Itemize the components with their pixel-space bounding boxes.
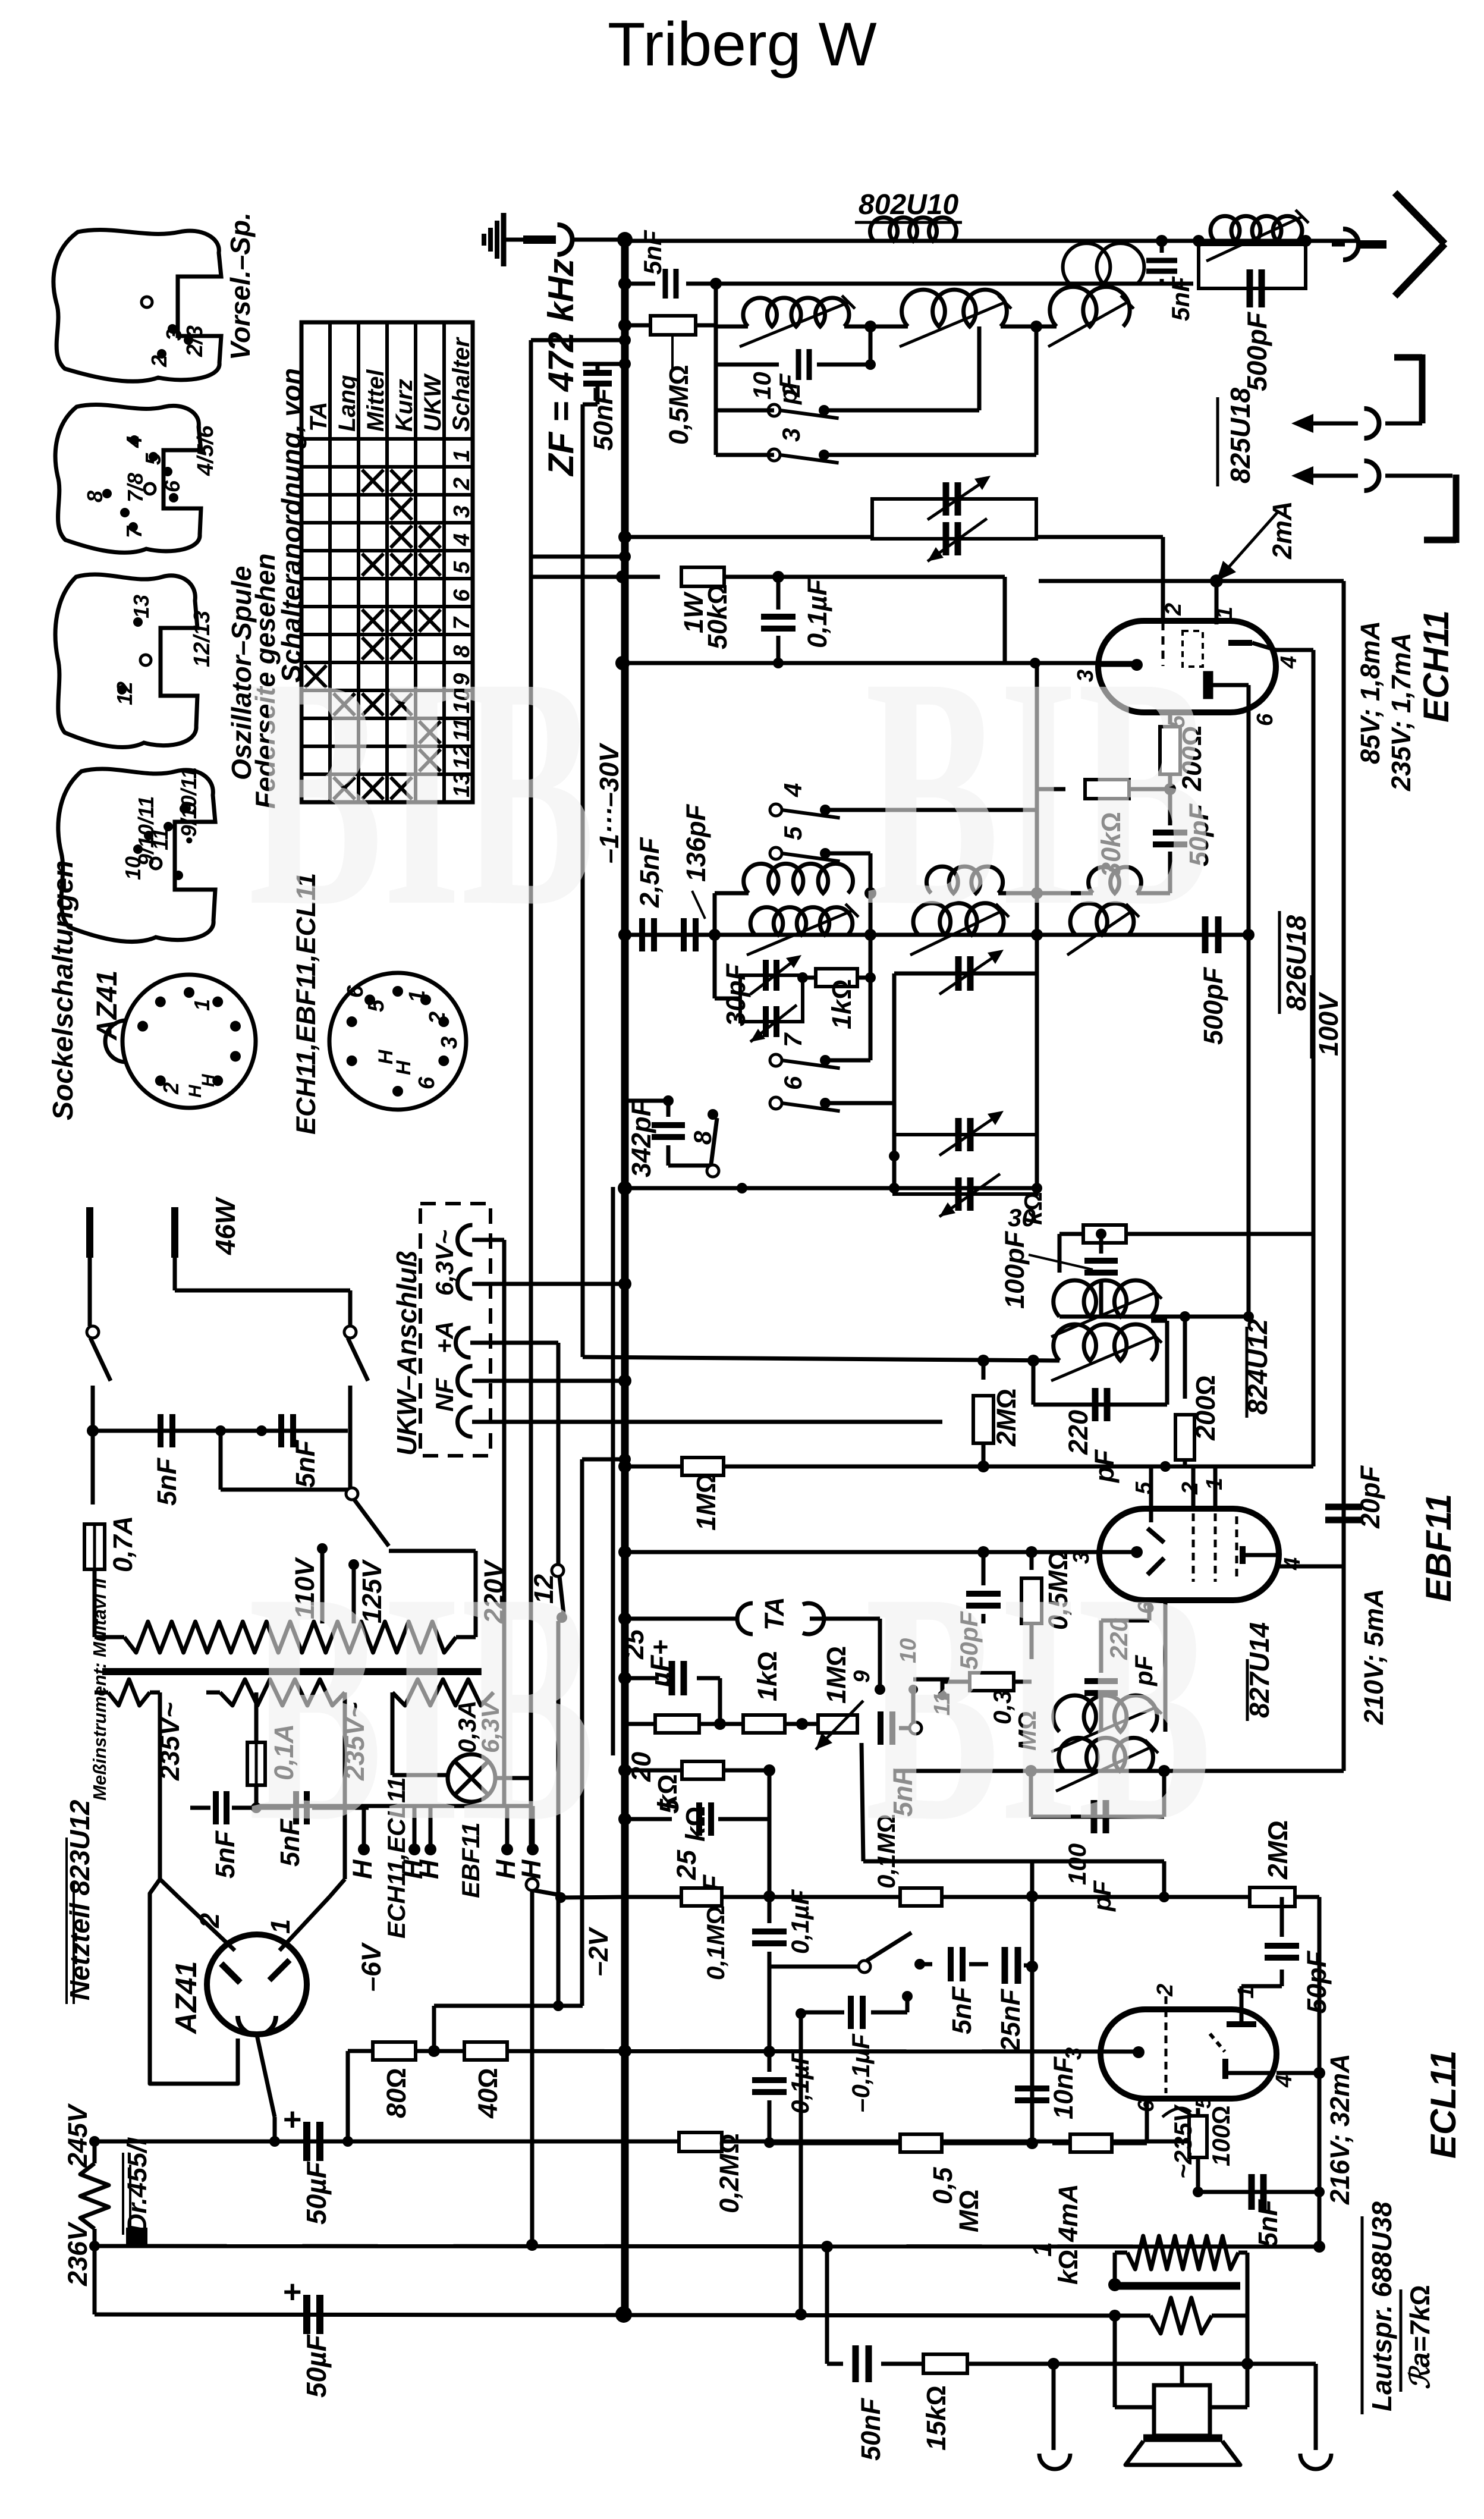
- resistor 1M avc: [625, 1466, 680, 1467]
- node: [1048, 2358, 1059, 2370]
- wire avc stub: [531, 555, 625, 559]
- svg-text:4: 4: [449, 533, 474, 546]
- node: [864, 321, 876, 332]
- ECL11 triode grid: [1210, 2034, 1225, 2052]
- resistor 40: [464, 2042, 507, 2060]
- switch table X marks: [362, 470, 383, 492]
- resistor 200 osc: [1168, 712, 1172, 724]
- svg-text:Kurz: Kurz: [391, 379, 417, 432]
- svg-text:8: 8: [83, 491, 107, 502]
- node: [1026, 1890, 1038, 1902]
- svg-text:Meßinstrument: Multavi II: Meßinstrument: Multavi II: [89, 1578, 110, 1801]
- wire out line: [827, 2362, 843, 2366]
- ECH11 hex plate: [1205, 673, 1211, 697]
- svg-text:236V: 236V: [62, 2221, 93, 2286]
- resistor 0.3M: [970, 1673, 1014, 1691]
- wire: [219, 1431, 223, 1490]
- resistor 0.5M det: [1030, 1552, 1034, 1570]
- wire cathode line: [622, 661, 1137, 665]
- tube ECH11: [1098, 621, 1276, 712]
- wire jack to bus: [572, 238, 625, 242]
- AZ41 cathode arc: [238, 2016, 276, 2035]
- svg-text:50µF: 50µF: [301, 2160, 332, 2225]
- svg-text:BIB: BIB: [249, 1525, 595, 1889]
- svg-text:30pF: 30pF: [721, 963, 751, 1026]
- svg-text:ECL11: ECL11: [1423, 2050, 1463, 2159]
- node: [1030, 321, 1042, 332]
- node: [618, 1277, 631, 1290]
- node: [1027, 1355, 1039, 1367]
- lamp 6.3V 0.3A: [391, 1692, 395, 1775]
- node: [1026, 2137, 1038, 2149]
- svg-text:25nF: 25nF: [995, 1988, 1026, 2052]
- svg-text:5nF: 5nF: [947, 1986, 977, 2034]
- svg-text:5nF: 5nF: [290, 1439, 320, 1488]
- svg-text:80Ω: 80Ω: [381, 2068, 411, 2118]
- svg-text:200Ω: 200Ω: [1190, 1375, 1221, 1441]
- svg-text:UKW: UKW: [420, 373, 446, 432]
- tap 110V: [317, 1543, 328, 1554]
- resistor 100 cath: [1165, 2099, 1167, 2108]
- wire: [1001, 325, 1057, 329]
- coil osc L2: [913, 903, 1004, 935]
- node: [763, 2046, 775, 2058]
- node: [865, 972, 876, 983]
- coil 827U14 a: [1054, 1695, 1157, 1732]
- wire pin6 drop: [1145, 2099, 1149, 2143]
- wire sec loop: [1113, 2316, 1117, 2407]
- node: [763, 1764, 775, 1776]
- capacitor 50uF 1: [303, 2122, 310, 2161]
- wire sw7: [825, 1059, 870, 1063]
- terminal H4: [505, 1806, 510, 1846]
- wire drop: [825, 2247, 829, 2364]
- svg-text:BIB: BIB: [249, 610, 595, 974]
- antenna connector arc: [1343, 229, 1359, 260]
- svg-text:9: 9: [177, 802, 201, 814]
- node: [1164, 783, 1176, 795]
- svg-text:1: 1: [449, 450, 474, 462]
- svg-text:4/5/6: 4/5/6: [193, 425, 218, 476]
- socket AZ41: [122, 975, 256, 1108]
- wire: [1137, 891, 1170, 896]
- svg-text:4: 4: [1280, 1557, 1305, 1571]
- ECH11 cathode: [1131, 659, 1143, 671]
- wire: [824, 409, 979, 413]
- resistor 2M out: [1250, 1887, 1295, 1906]
- node: [737, 1183, 747, 1193]
- node: [618, 530, 631, 544]
- node: [1243, 929, 1255, 941]
- fuse 0.7A: [91, 1431, 95, 1505]
- terminal arc R: [1300, 2454, 1331, 2469]
- coil osc L3: [1070, 903, 1134, 935]
- svg-text:ℛa=7kΩ: ℛa=7kΩ: [1404, 2285, 1435, 2389]
- wire 220V: [389, 1549, 476, 1553]
- node: [864, 887, 876, 899]
- svg-text:50nF: 50nF: [588, 387, 618, 451]
- wire 50nF drop: [581, 404, 585, 1357]
- resistor 0.1M b: [900, 1888, 942, 1906]
- variable capacitor pad2: [955, 1177, 962, 1211]
- node: [773, 658, 784, 668]
- svg-text:802U10: 802U10: [859, 189, 958, 221]
- wire right rail: [1340, 579, 1344, 583]
- mains prong 1: [86, 1207, 93, 1258]
- variable capacitor osc: [955, 956, 962, 991]
- antenna connector pin: [1332, 243, 1345, 247]
- svg-text:4: 4: [779, 783, 807, 797]
- svg-text:0,5MΩ: 0,5MΩ: [664, 365, 694, 445]
- svg-text:TA: TA: [306, 402, 332, 432]
- tube AZ41: [207, 1934, 307, 2034]
- capacitor 50pF out: [1280, 1970, 1284, 1986]
- svg-text:245V: 245V: [62, 2103, 93, 2168]
- node: [618, 1181, 632, 1195]
- coil osc L1: [750, 907, 853, 935]
- coil 802U10: [870, 218, 956, 241]
- svg-text:1: 1: [405, 990, 430, 1003]
- wire: [869, 978, 873, 1060]
- EBF11 grid dash: [1235, 1516, 1238, 1582]
- svg-text:NF: NF: [430, 1378, 458, 1412]
- svg-text:7: 7: [122, 525, 146, 538]
- svg-text:5: 5: [364, 999, 389, 1012]
- jack +A: [456, 1328, 471, 1358]
- coil former 456: [55, 405, 201, 553]
- svg-text:4: 4: [1277, 656, 1301, 669]
- wire to pin2: [1036, 535, 1163, 539]
- switch mains a: [87, 1326, 99, 1338]
- wire: [869, 326, 873, 365]
- wire: [892, 1103, 897, 1188]
- node: [663, 1095, 674, 1106]
- capacitor 5nF antenna: [663, 269, 668, 299]
- wire det line: [895, 1769, 1344, 1773]
- svg-text:500pF: 500pF: [1198, 966, 1228, 1045]
- svg-text:2: 2: [194, 1913, 225, 1928]
- wire: [1058, 1234, 1062, 1273]
- svg-text:10: 10: [748, 372, 776, 400]
- wire avc rail: [625, 1465, 1313, 1469]
- ECL11 pent plate: [1222, 2059, 1228, 2079]
- svg-text:2: 2: [147, 355, 171, 368]
- node: [1025, 1765, 1037, 1777]
- svg-text:2: 2: [449, 478, 474, 491]
- node: [1030, 658, 1040, 668]
- variable capacitor plates: [943, 482, 949, 516]
- svg-text:Sockelschaltungen: Sockelschaltungen: [48, 860, 79, 1120]
- transformer sec heater: [392, 1679, 493, 1705]
- ground: [501, 213, 507, 266]
- ECH11 triode plate: [1228, 640, 1252, 646]
- ECH11 pin2 lead: [1162, 622, 1165, 666]
- AZ41 lead 2: [279, 1897, 329, 1951]
- wire: [810, 1617, 880, 1621]
- capacitor 10pF: [716, 363, 779, 367]
- svg-text:3: 3: [449, 505, 474, 518]
- jack NF a: [458, 1366, 473, 1396]
- wire 6.3b: [472, 1282, 625, 1286]
- svg-text:1kΩ: 1kΩ: [826, 979, 857, 1029]
- svg-text:5nF: 5nF: [152, 1457, 182, 1506]
- wire pin6 drop: [1247, 685, 1251, 711]
- capacitor 220pF if: [1032, 1361, 1036, 1405]
- terminal FM 2: [1424, 537, 1456, 544]
- node: [864, 929, 876, 941]
- former3 dots: [133, 617, 143, 627]
- svg-text:AZ41: AZ41: [169, 1961, 203, 2035]
- wire pin6 det: [1164, 1600, 1168, 1732]
- node: [795, 2308, 807, 2320]
- node: [1158, 1765, 1170, 1777]
- node: [889, 1183, 900, 1193]
- wire -2V: [432, 2006, 436, 2051]
- node: [1108, 2278, 1121, 2291]
- wire: [844, 325, 908, 329]
- wire: [92, 1430, 93, 1431]
- node: [619, 1453, 631, 1465]
- wire: [1003, 577, 1007, 663]
- node: [710, 278, 722, 290]
- resistor 30k avc: [1059, 1232, 1083, 1236]
- switch tone: [769, 1965, 859, 1969]
- AZ41 lead 1: [178, 1897, 235, 1951]
- node: [89, 2241, 100, 2251]
- wire bias row: [348, 2051, 1139, 2052]
- svg-text:6: 6: [1253, 713, 1278, 726]
- switch 5: [770, 847, 782, 859]
- node: [618, 2044, 631, 2058]
- capacitor 50nF out: [853, 2345, 859, 2382]
- fuse 0.1A: [254, 1692, 259, 1741]
- wire pin4: [1279, 1565, 1344, 1569]
- node: [1026, 1546, 1037, 1558]
- svg-text:5nF: 5nF: [1167, 276, 1194, 321]
- svg-text:826U18: 826U18: [1281, 915, 1312, 1011]
- svg-text:3: 3: [162, 329, 186, 341]
- wire wiper: [862, 1743, 863, 1861]
- choke Dr455: [93, 2141, 97, 2163]
- antenna jack arc: [558, 225, 573, 255]
- svg-text:H: H: [185, 1084, 205, 1098]
- svg-text:210V; 5mA: 210V; 5mA: [1359, 1589, 1389, 1725]
- switch voltage sel: [346, 1488, 358, 1500]
- node: [1300, 235, 1312, 247]
- EBF11 pin5 lead: [1149, 1466, 1153, 1522]
- svg-text:12/13: 12/13: [190, 611, 215, 667]
- coil osc fb1: [744, 863, 853, 893]
- resistor 1k osc: [803, 976, 816, 980]
- svg-text:5nF: 5nF: [1253, 2198, 1283, 2247]
- wire heater mid: [611, 1187, 615, 1755]
- wire: [712, 1101, 713, 1114]
- svg-text:40Ω: 40Ω: [473, 2068, 503, 2119]
- resistor 1k af: [743, 1715, 785, 1733]
- terminal H2: [413, 1806, 417, 1846]
- svg-text:EBF11: EBF11: [1419, 1494, 1458, 1602]
- wire heater drop A: [529, 340, 533, 1849]
- svg-text:6: 6: [160, 480, 184, 492]
- node: [1160, 1461, 1171, 1472]
- svg-text:0,1µF: 0,1µF: [786, 1889, 814, 1954]
- wire: [911, 1689, 916, 1722]
- node: [618, 1546, 631, 1559]
- mains prong 2: [171, 1207, 178, 1258]
- svg-text:6,3V~: 6,3V~: [430, 1230, 458, 1296]
- wire: [785, 1722, 818, 1726]
- node: [1031, 929, 1043, 941]
- transformer core: [102, 1668, 482, 1675]
- svg-text:235V; 1,7mA: 235V; 1,7mA: [1386, 633, 1416, 791]
- transformer sec HV2: [220, 1679, 345, 1705]
- switch mains b: [344, 1326, 356, 1338]
- transformer sec HV1: [108, 1679, 150, 1705]
- svg-text:10: 10: [121, 856, 145, 880]
- svg-text:15kΩ: 15kΩ: [921, 2385, 951, 2451]
- node: [889, 1151, 900, 1161]
- terminal FM 1: [1394, 354, 1422, 361]
- node bus top: [617, 232, 633, 247]
- svg-text:1: 1: [1212, 607, 1237, 619]
- svg-text:85V; 1,8mA: 85V; 1,8mA: [1355, 621, 1385, 764]
- wire TA line: [625, 1617, 737, 1621]
- EBF11 cathode bar: [1240, 1546, 1246, 1564]
- terminal arc L: [1039, 2454, 1070, 2469]
- tube ECL11: [1101, 2009, 1277, 2099]
- svg-text:0,2MΩ: 0,2MΩ: [714, 2133, 744, 2213]
- jack 6.3V b: [458, 1269, 473, 1299]
- variable capacitor plates2: [943, 522, 949, 555]
- wire pin1: [1240, 1986, 1244, 2009]
- svg-text:4: 4: [122, 436, 146, 448]
- node: [1026, 1961, 1038, 1973]
- coil osc fb3: [1089, 867, 1142, 893]
- terminal H5: [531, 1806, 535, 1846]
- svg-text:2mA: 2mA: [1267, 501, 1297, 560]
- svg-text:2MΩ: 2MΩ: [1262, 1820, 1293, 1880]
- capacitor 500pF: [1199, 244, 1306, 288]
- wire: [530, 1890, 535, 2245]
- node: [1241, 2358, 1253, 2370]
- node: [797, 972, 808, 983]
- svg-text:UKW–Anschluß: UKW–Anschluß: [391, 1251, 422, 1456]
- wire: [802, 975, 803, 978]
- node: [772, 571, 784, 583]
- node: [1248, 934, 1249, 935]
- capacitor 5nF fm: [1160, 244, 1164, 253]
- variable capacitor C1a: [872, 499, 1036, 539]
- capacitor 25nF tone: [1002, 1947, 1008, 1984]
- switch tone b: [902, 1991, 913, 2002]
- svg-text:2: 2: [1153, 1984, 1178, 1997]
- UKW-Anschluss box: [420, 1204, 491, 1456]
- svg-text:9/10/11: 9/10/11: [134, 796, 158, 866]
- trimmer 30pF plates2: [763, 1006, 769, 1037]
- wire 2nd rail: [625, 282, 655, 286]
- svg-text:ECH11: ECH11: [1416, 610, 1456, 723]
- capacitor 5nF h1: [190, 1806, 210, 1810]
- svg-text:10nF: 10nF: [1048, 2056, 1079, 2119]
- node: [977, 1460, 989, 1472]
- svg-text:–2V: –2V: [583, 1926, 614, 1976]
- speaker magnet bar: [1143, 2435, 1222, 2442]
- svg-text:12: 12: [112, 681, 137, 705]
- resistor 15k: [923, 2354, 967, 2373]
- resistor 0.2M: [679, 2132, 722, 2151]
- svg-text:7: 7: [779, 1032, 807, 1047]
- coil fm link: [1063, 243, 1145, 284]
- svg-text:1: 1: [265, 1919, 295, 1934]
- node: [1210, 574, 1223, 588]
- wire B- rail: [95, 2314, 1115, 2316]
- svg-text:BIB: BIB: [865, 610, 1212, 974]
- trimmer 30pF box: [740, 975, 803, 1022]
- former2 dots: [130, 435, 139, 445]
- svg-text:Netzteil 823U12: Netzteil 823U12: [64, 1799, 95, 2000]
- wire: [894, 972, 1037, 976]
- wire: [716, 409, 774, 413]
- gang2 box: [894, 1135, 1037, 1194]
- node: [1193, 235, 1205, 247]
- node: [618, 1374, 631, 1387]
- svg-text:46W: 46W: [210, 1196, 241, 1255]
- svg-text:2: 2: [425, 1012, 450, 1025]
- capacitor 50pF det: [982, 1552, 986, 1585]
- wire: [88, 1258, 92, 1326]
- capacitor 25uF: [625, 1676, 659, 1681]
- coil 827U14 b: [1059, 1738, 1153, 1771]
- svg-text:50µF: 50µF: [301, 2333, 332, 2398]
- resistor 20k: [655, 1715, 699, 1733]
- wire pin4: [1276, 648, 1313, 652]
- svg-text:TA: TA: [759, 1597, 790, 1631]
- switch pole2: [526, 1879, 538, 1890]
- resistor feedback: [1127, 2236, 1238, 2269]
- node: [428, 2045, 440, 2057]
- svg-text:2MΩ: 2MΩ: [991, 1389, 1021, 1447]
- svg-text:2/3: 2/3: [183, 325, 207, 357]
- wire: [941, 1679, 945, 1695]
- node: [618, 1813, 631, 1826]
- AZ41 loop: [150, 1879, 238, 2084]
- wire: [998, 891, 1093, 896]
- svg-text:5nF: 5nF: [639, 230, 666, 275]
- EBF11 pin1 lead: [1213, 1466, 1218, 1509]
- speaker cone: [1125, 2441, 1240, 2465]
- svg-text:2: 2: [159, 1082, 183, 1095]
- wire cath line: [1198, 2190, 1319, 2194]
- coil osc fb2 826U18: [926, 866, 1002, 893]
- node: [821, 2241, 833, 2253]
- svg-text:100Ω: 100Ω: [1207, 2106, 1235, 2166]
- svg-text:136pF: 136pF: [681, 803, 711, 882]
- svg-text:+: +: [283, 2274, 302, 2310]
- svg-text:13: 13: [129, 595, 153, 618]
- EBF11 cathode line: [983, 1550, 1137, 1554]
- socket ECH11: [329, 973, 466, 1110]
- capacitor 2.5nF: [639, 918, 645, 951]
- wire rect leads: [158, 1692, 162, 1879]
- antenna arrow: [1395, 193, 1445, 244]
- switch 2: [768, 404, 780, 416]
- svg-text:2,5nF: 2,5nF: [634, 837, 665, 908]
- wire sw5: [825, 852, 870, 856]
- switch table grid: [301, 322, 473, 802]
- svg-text:2: 2: [777, 384, 805, 398]
- AZ41 cathode lead: [257, 2035, 275, 2117]
- svg-text:0,1MΩ: 0,1MΩ: [702, 1905, 730, 1980]
